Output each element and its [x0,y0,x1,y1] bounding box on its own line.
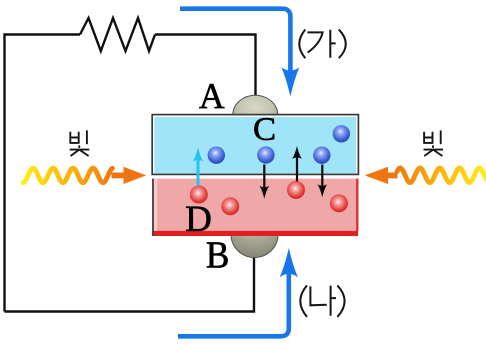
label A [199,84,224,108]
light wave right (빛) [397,168,486,183]
electrode sphere top [233,95,278,135]
dark left border p-layer [152,179,154,236]
wire bottom to device [5,254,255,312]
electron e4 [333,125,350,142]
label 빛 right [424,130,444,156]
electron e2 [257,146,274,163]
electron e1 [208,147,225,164]
hole h4 [330,194,348,212]
label (나) [300,285,344,317]
electrode sphere bottom [231,212,278,258]
light wave left (빛) [23,168,112,183]
wire circuit loop (left, top, bottom) [5,35,81,312]
arrow hole up [292,146,302,181]
hole h3 [287,181,305,199]
n-type layer (blue, A) [152,115,358,175]
arrow electron down 2 [317,165,327,198]
label 빛 left [70,130,90,156]
red strip bottom of p-layer [152,231,358,236]
arrow electron down 1 [259,165,269,199]
light arrowhead left [112,167,147,184]
bevel highlight left of p-layer [154,179,157,232]
electron e3 [313,147,330,164]
wire top to device [155,35,256,103]
hole h2 [221,197,239,215]
hole h1 [190,186,208,204]
(가) blue current arrow top [180,9,300,97]
(나) blue current arrow bottom [178,248,298,336]
label B [207,242,228,267]
p-type layer (pink, B) [153,179,358,236]
label (가) [299,30,346,59]
label D [186,207,210,231]
arrow cyan up [193,148,204,186]
resistor R [80,18,155,51]
label C [254,118,274,140]
light arrowhead right [365,167,398,184]
red strip right of p-layer [356,179,358,231]
